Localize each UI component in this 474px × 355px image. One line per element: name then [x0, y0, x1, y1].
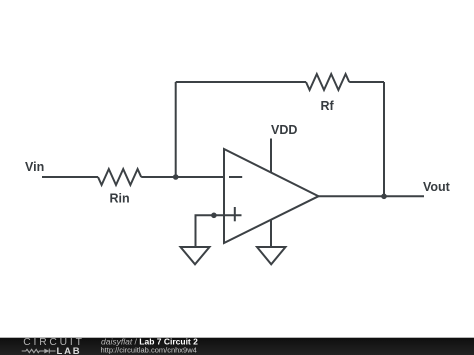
svg-text:Vin: Vin — [25, 160, 44, 174]
svg-text:Vout: Vout — [423, 180, 451, 194]
wire VDD power pin — [270, 139, 272, 173]
svg-text:VDD: VDD — [271, 123, 297, 137]
svg-text:Rin: Rin — [110, 192, 130, 206]
ground symbol GND1 — [181, 247, 210, 264]
wire Rf to right feedback corner — [349, 81, 384, 83]
svg-text:http://circuitlab.com/cnhx9w4: http://circuitlab.com/cnhx9w4 — [101, 346, 197, 355]
node B junction dot non-inverting input/ground — [211, 213, 217, 219]
wire op-amp negative supply pin to ground — [270, 220, 272, 248]
svg-text:LAB: LAB — [57, 346, 82, 355]
op-amp U1 inverting input minus marker — [229, 176, 242, 178]
node C junction dot output/feedback — [381, 194, 387, 200]
op-amp U1 non-inverting input plus marker — [234, 207, 236, 221]
wire output to Vout — [319, 195, 425, 197]
CircuitLab logo squiggle resistor and diode — [22, 349, 56, 354]
wire feedback top segment to Rf — [176, 81, 306, 83]
wire non-inverting input with corner — [196, 215, 242, 247]
node A junction dot Rin/Rf/inverting input — [173, 174, 179, 180]
wire feedback vertical right segment to output — [383, 82, 385, 196]
ground symbol GND2 — [257, 247, 286, 264]
resistor Rin — [98, 169, 141, 185]
resistor Rf — [306, 74, 349, 90]
svg-text:Rf: Rf — [321, 99, 335, 113]
wire feedback vertical left segment — [175, 82, 177, 177]
wire Rin to op-amp inverting input — [141, 176, 224, 178]
op-amp U1 body — [224, 149, 319, 243]
wire Vin to resistor Rin — [42, 176, 98, 178]
